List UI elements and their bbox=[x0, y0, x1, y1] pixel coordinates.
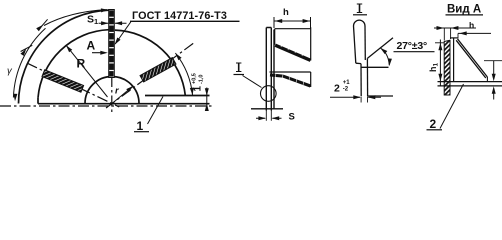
svg-text:2: 2 bbox=[334, 83, 340, 95]
svg-text:2: 2 bbox=[430, 117, 437, 131]
svg-text:ГОСТ 14771-76-Т3: ГОСТ 14771-76-Т3 bbox=[132, 10, 227, 22]
svg-text:-2: -2 bbox=[343, 87, 349, 93]
svg-text:S: S bbox=[289, 112, 295, 123]
svg-text:27°±3°: 27°±3° bbox=[397, 40, 427, 52]
svg-text:+1: +1 bbox=[343, 80, 351, 86]
svg-text:Вид А: Вид А bbox=[447, 4, 481, 16]
svg-text:1: 1 bbox=[137, 119, 144, 133]
svg-text:1: 1 bbox=[193, 86, 204, 92]
svg-text:+0,5: +0,5 bbox=[192, 73, 198, 84]
svg-text:А: А bbox=[87, 39, 96, 53]
svg-text:h: h bbox=[283, 7, 289, 18]
svg-text:-1,0: -1,0 bbox=[199, 75, 205, 84]
svg-text:h: h bbox=[469, 20, 474, 30]
